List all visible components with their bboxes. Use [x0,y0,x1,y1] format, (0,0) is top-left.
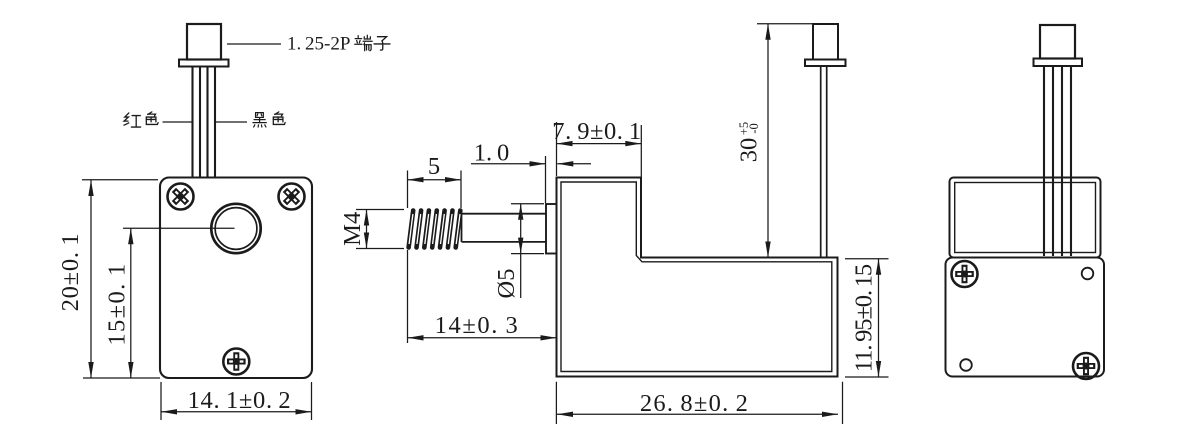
top housing box inner (right view) [955,183,1096,253]
dim 5 line [408,179,462,181]
screw bottom (left view) [223,349,249,375]
screw bottom-right (right view) [1073,353,1099,379]
hole top-right (right view) [1082,268,1094,280]
svg-text:M4: M4 [339,212,366,246]
dim 26.8 extensions [556,382,842,424]
svg-text:-0: -0 [747,123,761,133]
dim M4 extensions [356,210,404,249]
connector housing (middle view) [813,24,838,60]
wire leads (right view) [1044,66,1071,256]
dim 14 line [408,337,557,339]
dim 14.1±0.2 extensions [161,382,312,420]
label 黑色 [253,113,266,127]
dim 14 extension left [407,250,409,343]
svg-text:5: 5 [428,153,440,180]
dim 11.95 line [878,259,880,377]
shaft [462,214,547,242]
connector housing (right view) [1040,25,1075,59]
dim 20±0.1 extension top [82,179,158,181]
wire leads (left view) [193,67,216,178]
char 子 [374,37,390,50]
svg-text:11. 95±0. 15: 11. 95±0. 15 [851,264,878,372]
svg-text:14. 1±0. 2: 14. 1±0. 2 [188,387,292,414]
svg-text:Ø5: Ø5 [493,269,520,299]
svg-text:7. 9±0. 1: 7. 9±0. 1 [552,118,641,145]
plunger hole inner circle [215,208,257,250]
dim 1.0 line left [471,163,546,165]
solenoid body front face [160,178,312,379]
svg-text:15±0. 1: 15±0. 1 [104,262,131,345]
top housing box outer (right view) [950,178,1101,258]
collar Ø5 [546,204,557,254]
dim 30 line [767,24,769,258]
screw top-left (left view) [167,183,193,209]
screw top-left (right view) [952,261,978,287]
dim 1.0 extension [545,156,547,203]
dim 5 extensions [408,171,462,209]
dim 26.8 line [557,413,838,415]
red wire leader [163,121,193,123]
dim 11.95 extensions [845,259,889,377]
svg-text:14±0. 3: 14±0. 3 [435,312,520,339]
char 端 [355,35,372,51]
connector flange (left view) [179,60,229,67]
dim 7.9 extensions [557,122,642,179]
svg-text:20±0. 1: 20±0. 1 [57,233,84,312]
body outline inner wall [561,182,832,372]
centerline to hole center [123,227,235,229]
screw top-right (left view) [278,183,304,209]
svg-text:26. 8±0. 2: 26. 8±0. 2 [640,390,749,417]
connector 1.25-2P housing (left view) [187,24,221,60]
leader line to connector label [227,43,281,45]
svg-text:1. 25-2P: 1. 25-2P [287,34,350,55]
thread M4 crests [409,211,461,248]
svg-text:1. 0: 1. 0 [474,140,510,167]
body outline outer (side view) [557,178,838,377]
svg-text:30: 30 [736,138,763,163]
dim 14.1±0.2 line [161,411,312,413]
dim M4 line [366,210,368,249]
dim 7.9 line [557,143,642,145]
dim 1.0 line right [557,163,591,165]
black wire leader [216,121,248,123]
dim 30 extension top [757,23,812,25]
connector flange (middle view) [805,60,846,67]
dim Ø5 line [520,204,522,298]
label 红色 [124,113,141,127]
bottom housing box (right view) [946,258,1105,377]
dim Ø5 extensions [511,204,544,254]
hole bottom-left (right view) [960,359,972,371]
dim 20±0.1 line [90,180,92,378]
dim 15±0.1 line [130,228,132,378]
connector flange (right view) [1034,59,1083,67]
wire pair (middle view) [821,66,827,257]
dim 20±0.1 extension bottom [83,377,160,379]
plunger hole outer circle [211,204,260,253]
